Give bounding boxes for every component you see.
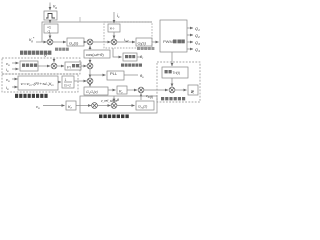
svg-text:τs+1: τs+1 (64, 84, 71, 88)
svg-text:vg: vg (53, 4, 57, 10)
svg-text:Q3: Q3 (195, 40, 200, 46)
svg-text:ic: ic (117, 13, 120, 19)
svg-text:Gv(s): Gv(s) (69, 41, 79, 47)
svg-text:Tri(t): Tri(t) (173, 71, 180, 75)
svg-text:θr: θr (140, 54, 144, 60)
svg-text:GvGi(z): GvGi(z) (86, 90, 98, 95)
svg-text:-1: -1 (47, 30, 50, 34)
svg-text:io: io (6, 85, 9, 91)
svg-text:PWM: PWM (163, 39, 173, 44)
svg-text:Grc(z): Grc(z) (138, 105, 147, 110)
svg-text:Kr: Kr (119, 89, 124, 95)
svg-text:1: 1 (65, 78, 67, 82)
svg-text:vo: vo (36, 104, 40, 110)
svg-text:PI: PI (67, 65, 71, 70)
svg-text:θ: θ (117, 98, 119, 102)
svg-text:Q2: Q2 (195, 33, 200, 39)
svg-text:Q4: Q4 (195, 47, 200, 53)
svg-text:v_ref_slope: v_ref_slope (101, 99, 118, 103)
svg-text:Q1: Q1 (195, 26, 200, 32)
svg-text:io: io (6, 67, 9, 73)
svg-text:vg*: vg* (29, 37, 35, 44)
svg-text:Gi(s): Gi(s) (138, 41, 147, 47)
svg-text:vtri(t): vtri(t) (146, 94, 153, 99)
svg-text:×÷: ×÷ (110, 26, 116, 31)
svg-text:PLL: PLL (110, 71, 118, 76)
svg-text:v=vo-(R+sL)io: v=vo-(R+sL)io (21, 81, 54, 87)
svg-text:Kf: Kf (68, 104, 73, 110)
svg-text:cos(ωt+θ): cos(ωt+θ) (86, 52, 104, 57)
svg-text:vo: vo (6, 77, 10, 83)
svg-text:≷: ≷ (191, 89, 195, 94)
svg-text:θs: θs (140, 73, 144, 79)
